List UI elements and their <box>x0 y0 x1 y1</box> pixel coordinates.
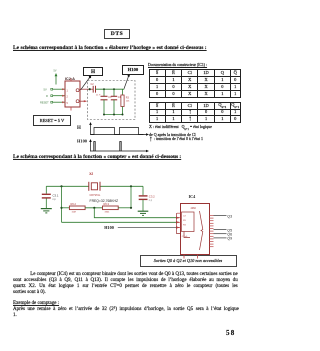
wire out Q3 <box>214 215 227 217</box>
svg-text:n.p: n.p <box>53 199 57 201</box>
svg-text:Q3: Q3 <box>227 214 232 218</box>
pin 14 stub (top) <box>70 79 72 82</box>
wire out Q5 <box>214 229 227 231</box>
capacitor C3.2 <box>139 195 155 211</box>
resistor R6.2 <box>69 202 85 214</box>
timing diagram H axis <box>77 122 149 136</box>
svg-text:C3.2: C3.2 <box>149 195 155 199</box>
svg-text:CRYSTAL: CRYSTAL <box>90 194 101 197</box>
wire right rail up <box>130 186 132 208</box>
capacitor C4 <box>111 89 122 114</box>
wire H100 to IC4 <box>118 227 179 229</box>
RESET note box <box>33 115 71 126</box>
node H junction <box>89 88 91 90</box>
SVG schematic overlay <box>0 0 248 351</box>
internal loop wire <box>184 232 190 238</box>
wire out Q9 <box>214 237 227 239</box>
wire output to node H <box>80 88 93 90</box>
wire feedback stub <box>177 213 181 234</box>
wire row to right rail <box>118 207 131 209</box>
svg-text:Q9: Q9 <box>227 237 232 241</box>
svg-text:H: H <box>77 126 81 131</box>
wire top net (node A) <box>46 185 89 187</box>
svg-text:5V: 5V <box>44 87 47 91</box>
dashed selection box <box>88 81 136 120</box>
op-amp gate IC2:A <box>65 76 80 107</box>
svg-text:IC2:A: IC2:A <box>65 76 75 81</box>
capacitor C3.1 <box>42 186 59 208</box>
node left/row junction <box>60 207 62 209</box>
table notes <box>149 124 244 138</box>
main paragraph <box>13 272 238 296</box>
node bottom junction 3 <box>122 114 124 116</box>
crystal X2 <box>89 172 118 203</box>
ground (C3.1) <box>41 209 52 213</box>
IC4 output pin stubs <box>210 216 214 247</box>
table title <box>148 63 207 67</box>
svg-text:RESET: RESET <box>40 100 49 104</box>
DTS header box <box>104 29 130 39</box>
capacitor C2 (series) <box>91 83 100 97</box>
H flag pointer <box>89 76 91 78</box>
IC4 bottom pin stubs <box>183 255 185 259</box>
svg-text:C3.1: C3.1 <box>53 193 59 197</box>
timing diagram H100 axis <box>77 139 149 153</box>
wire to IC4 pin (from left rail) <box>62 221 180 223</box>
wire output 2 stub <box>80 100 87 102</box>
truth table 1 <box>149 69 241 98</box>
pin 7 stub (bottom) <box>70 107 72 111</box>
waveform H100 pulses <box>94 142 121 152</box>
svg-text:330k: 330k <box>105 212 111 214</box>
node B junction (right) <box>130 185 132 187</box>
svg-text:4060: 4060 <box>191 207 197 210</box>
svg-text:H100: H100 <box>104 225 114 230</box>
H100 net flag box <box>122 65 144 75</box>
wire resistor row <box>62 207 70 209</box>
svg-text:R3: R3 <box>126 97 130 100</box>
truth table 2 <box>149 102 241 123</box>
wire bottom rail <box>104 114 123 116</box>
svg-text:5V: 5V <box>54 70 57 73</box>
page number <box>226 329 235 337</box>
resistor R6.3 <box>103 202 119 214</box>
H100 flag pointer <box>128 75 130 77</box>
wire input 2 <box>46 94 65 98</box>
example heading <box>13 301 59 306</box>
svg-text:R: R <box>46 94 48 98</box>
node top-rail junction 1 <box>103 88 105 90</box>
node A junction (left) <box>60 185 62 187</box>
caption box: sorties non accessibles <box>140 255 237 267</box>
svg-text:10M: 10M <box>72 212 76 214</box>
svg-text:C2: C2 <box>91 83 95 86</box>
capacitor C3 (polarized) <box>99 89 112 114</box>
svg-text:IC4: IC4 <box>189 194 197 199</box>
node bottom junction 1 <box>103 114 105 116</box>
IC4 input pin stubs <box>177 213 181 227</box>
heading 1 <box>13 45 207 51</box>
svg-text:R6.2: R6.2 <box>71 202 77 206</box>
node top-rail junction 2 <box>113 88 115 90</box>
svg-text:X2: X2 <box>89 172 93 176</box>
waveform H <box>91 128 144 135</box>
wire left rail down <box>61 186 63 222</box>
heading 2 <box>13 154 181 160</box>
node mid-row junction <box>93 207 95 209</box>
node bottom junction 2 <box>113 114 115 116</box>
ground (C3.2) <box>138 211 149 215</box>
svg-text:R6.3: R6.3 <box>104 202 110 206</box>
wire between resistors <box>85 207 102 209</box>
wire input 3 RESET <box>40 100 65 104</box>
svg-text:H100: H100 <box>77 139 88 144</box>
svg-text:n.p: n.p <box>149 200 153 202</box>
internal divider brace <box>200 211 203 250</box>
resistor R3 <box>121 89 130 114</box>
wire to IC4 pin (from mid-row node) <box>94 208 179 218</box>
counter IC4 <box>181 194 210 255</box>
svg-text:10k: 10k <box>126 101 130 103</box>
wire input 1 <box>44 87 66 91</box>
IC4 input pin arrows <box>176 217 180 219</box>
power symbol +5V <box>54 70 58 85</box>
wire out Q6 <box>214 233 227 235</box>
H net flag box <box>83 67 103 76</box>
wire top rail <box>96 88 125 90</box>
